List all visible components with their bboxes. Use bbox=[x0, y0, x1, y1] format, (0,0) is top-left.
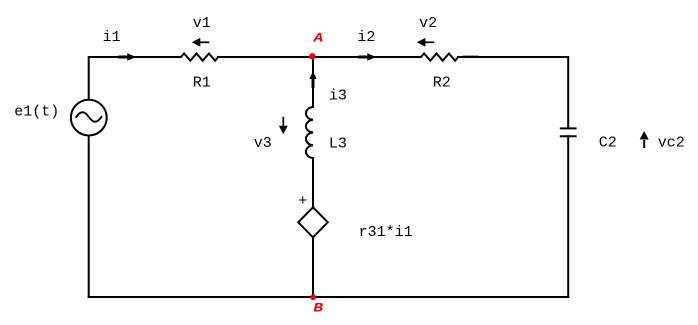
inductor L3 bbox=[306, 107, 313, 158]
voltage arrow v2 bbox=[417, 38, 435, 47]
node A bbox=[309, 53, 315, 59]
wire bbox=[218, 56, 421, 58]
svg-text:R2: R2 bbox=[433, 75, 451, 92]
current arrow i3 bbox=[309, 71, 316, 88]
wire bbox=[89, 57, 181, 99]
svg-text:+: + bbox=[298, 193, 307, 210]
svg-text:v1: v1 bbox=[193, 15, 211, 32]
svg-text:i2: i2 bbox=[357, 29, 375, 46]
svg-text:e1(t): e1(t) bbox=[14, 103, 59, 120]
wire bbox=[312, 158, 314, 207]
wire bbox=[312, 57, 314, 107]
wire bbox=[567, 136, 569, 297]
voltage arrow vc2 bbox=[640, 131, 649, 148]
wire bbox=[458, 57, 568, 128]
svg-text:A: A bbox=[312, 32, 323, 46]
wire bbox=[89, 296, 569, 298]
wire (thicker overlap stub right of R2) bbox=[463, 55, 478, 57]
voltage arrow v3 bbox=[279, 117, 288, 135]
svg-text:v3: v3 bbox=[254, 135, 272, 152]
svg-text:i3: i3 bbox=[329, 87, 347, 104]
current arrow i2 bbox=[358, 53, 376, 61]
svg-text:R1: R1 bbox=[193, 75, 211, 92]
svg-text:B: B bbox=[313, 302, 323, 316]
svg-text:L3: L3 bbox=[329, 135, 347, 152]
dependent source r31*i1 bbox=[298, 207, 328, 237]
capacitor C2 bbox=[561, 128, 576, 136]
current arrow i1 bbox=[118, 53, 136, 61]
voltage arrow v1 bbox=[192, 38, 210, 47]
wire bbox=[312, 237, 314, 297]
svg-text:C2: C2 bbox=[599, 134, 617, 151]
resistor R1 bbox=[181, 54, 218, 61]
node B bbox=[310, 294, 316, 300]
svg-text:i1: i1 bbox=[103, 29, 121, 46]
resistor R2 bbox=[421, 54, 458, 61]
wire bbox=[88, 136, 90, 297]
svg-text:v2: v2 bbox=[419, 15, 437, 32]
svg-text:r31*i1: r31*i1 bbox=[359, 224, 413, 241]
svg-text:vc2: vc2 bbox=[658, 134, 685, 151]
voltage source e1(t) bbox=[71, 100, 107, 136]
